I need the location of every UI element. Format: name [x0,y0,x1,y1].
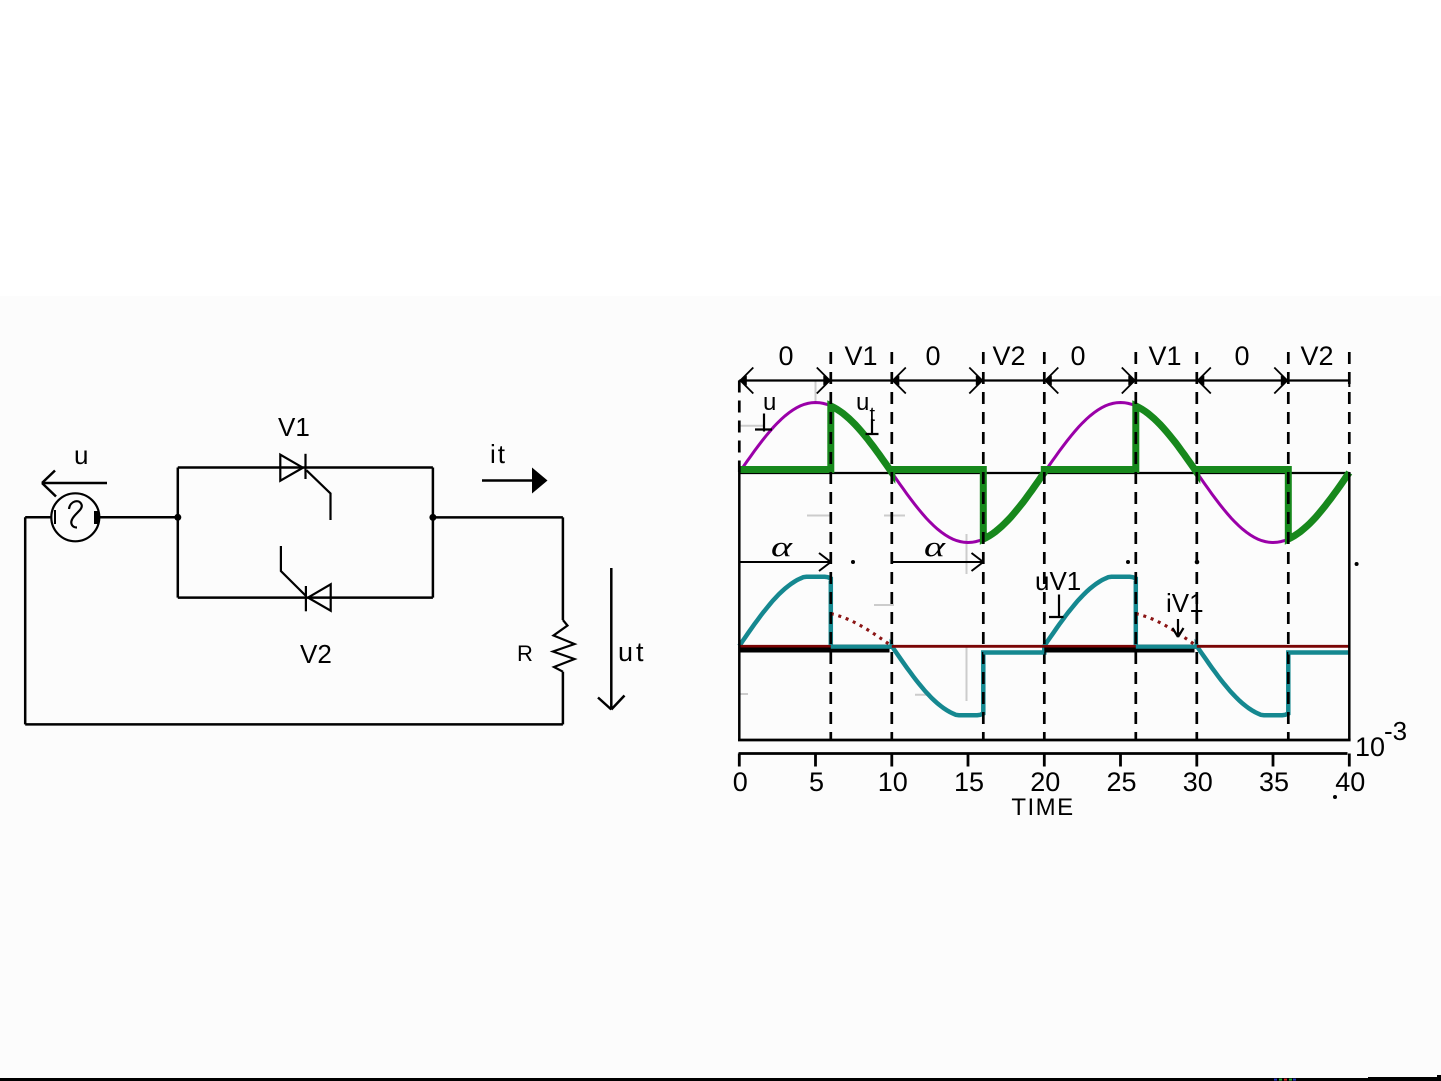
wire left rail [24,517,27,724]
svg-text:it: it [490,439,507,469]
svg-text:V1: V1 [1148,341,1181,371]
label V2 [300,639,332,669]
svg-text:V2: V2 [992,341,1025,371]
lower zero line segments (black) [739,648,1194,653]
time scale axis [739,754,1350,767]
label ut (chart) [856,389,879,435]
stray specks [851,560,1359,799]
svg-text:20: 20 [1030,767,1060,797]
thyristor current iV1 (dotted maroon) [831,614,1197,646]
interval labels 0 V1 0 V2 [778,341,1333,371]
wire source to node A [99,516,178,519]
arrow for u (pointing left) [42,471,107,497]
label ut (load voltage) [618,637,647,667]
chart left border [738,381,741,741]
svg-text:V2: V2 [300,639,332,669]
arrow for ut (pointing down) [598,568,625,710]
svg-text:V1: V1 [278,412,310,442]
svg-text:0: 0 [925,341,940,371]
svg-text:0: 0 [1234,341,1249,371]
svg-text:35: 35 [1259,767,1289,797]
resistor R [553,620,575,672]
wire source to left rail [25,516,51,519]
svg-text:V1: V1 [844,341,877,371]
node A (junction dot) [174,514,181,521]
svg-text:u: u [763,389,776,416]
wire top branch [178,466,433,469]
svg-text:40: 40 [1335,767,1365,797]
label TIME [1011,794,1074,821]
label R [517,641,533,666]
svg-text:5: 5 [809,767,824,797]
wire bottom branch [178,596,433,599]
wire node B to resistor branch [433,516,563,519]
svg-text:-3: -3 [1384,716,1407,746]
svg-text:TIME: TIME [1011,794,1074,821]
label iV1 [1166,588,1204,637]
svg-text:10: 10 [878,767,908,797]
exponent 10^-3 [1355,716,1407,762]
dimension line (top) [739,379,1349,381]
alpha dimension 2 [892,531,984,571]
arrow for it (pointing right) [482,468,548,494]
tick labels [733,767,1366,797]
wire left branch vertical [177,468,180,598]
output voltage ut (green) [739,406,1349,539]
svg-text:10: 10 [1355,732,1385,762]
svg-text:0: 0 [778,341,793,371]
wire right branch vertical [432,468,435,598]
grid marks (gray) [739,381,966,701]
label uV1 [1035,566,1081,617]
svg-text:uV1: uV1 [1035,566,1081,596]
svg-text:15: 15 [954,767,984,797]
svg-text:V2: V2 [1300,341,1333,371]
supply voltage sine u (purple) [739,403,1349,543]
svg-text:30: 30 [1183,767,1213,797]
label it (load current) [490,439,507,469]
chart bottom border [738,739,1351,742]
dimension arrowheads [738,368,1349,394]
wire down to resistor [562,517,565,620]
label V1 [278,412,310,442]
node B (junction dot) [429,514,436,521]
alpha dimension 1 [739,531,831,571]
AC voltage source [51,493,99,541]
svg-text:ut: ut [618,637,647,667]
svg-text:u: u [74,440,88,470]
svg-text:α: α [924,531,946,563]
label u (chart) [755,389,776,432]
svg-text:R: R [517,641,533,666]
svg-text:0: 0 [733,767,748,797]
label u (source voltage) [74,440,88,470]
thyristor V2 [281,546,331,611]
chart right border [1348,352,1351,740]
svg-text:α: α [771,531,793,563]
thyristor voltage uV1 (teal) [739,577,1349,715]
svg-text:iV1: iV1 [1166,588,1204,618]
svg-text:0: 0 [1070,341,1085,371]
svg-text:u: u [856,389,869,416]
upper zero axis [739,472,1349,474]
wire bottom rail [25,723,563,726]
thyristor V1 [280,454,330,520]
wire resistor to bottom rail [562,672,565,725]
lower zero line iV1=0 (maroon) [739,645,1349,648]
dashed time boundaries [831,352,1289,740]
bottom bar [0,1075,1441,1081]
svg-text:25: 25 [1106,767,1136,797]
uV1 conduction zero segments (teal) [831,647,1350,653]
